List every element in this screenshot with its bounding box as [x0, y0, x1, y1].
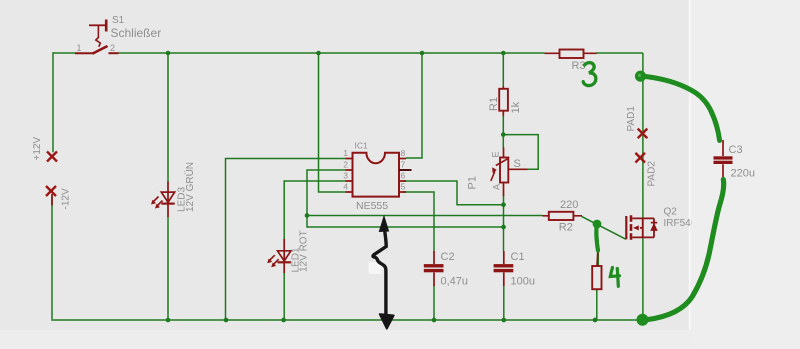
- resistor R4 (unlabeled): [592, 248, 601, 289]
- svg-text:0,47u: 0,47u: [441, 276, 469, 288]
- IC1 pin 7 stub unconnected: [399, 169, 412, 171]
- potentiometer P1: [491, 148, 528, 197]
- IC1 pin stubs left: [346, 159, 353, 193]
- resistor R2: [543, 212, 583, 220]
- wire gate junction down to R4: [597, 224, 599, 266]
- svg-text:12V ROT: 12V ROT: [299, 230, 310, 272]
- wire top rail to IC pin4: [319, 53, 346, 192]
- svg-text:P1: P1: [467, 176, 479, 189]
- wire C1 bottom to rail: [503, 286, 505, 321]
- svg-text:PAD1: PAD1: [626, 106, 637, 132]
- LED LED1 emission arrows: [267, 255, 279, 267]
- svg-text:1: 1: [77, 43, 82, 53]
- svg-text:NE555: NE555: [356, 200, 388, 212]
- svg-text:R2: R2: [559, 221, 573, 233]
- potentiometer P1 wiper arrowhead: [492, 167, 497, 173]
- wire R4 bottom to rail: [596, 290, 598, 321]
- wire top rail right segment after R3: [596, 52, 643, 54]
- svg-text:1: 1: [343, 148, 348, 158]
- wire top rail main segment: [118, 52, 545, 54]
- svg-text:2: 2: [110, 43, 115, 53]
- svg-text:C1: C1: [511, 251, 525, 263]
- wire IC pin3 to LED1 column: [284, 181, 345, 240]
- svg-text:Q2: Q2: [664, 207, 678, 218]
- svg-text:Schließer: Schließer: [111, 26, 162, 40]
- hand-drawn blob at gate junction: [593, 220, 602, 229]
- svg-text:-12V: -12V: [61, 188, 72, 209]
- svg-text:8: 8: [401, 148, 406, 158]
- wire LED1 bottom to rail: [283, 273, 285, 321]
- right lighter margin strip: [691, 0, 800, 349]
- capacitor C2: [433, 251, 435, 286]
- op IC1 NE555 body: [353, 153, 400, 197]
- svg-text:PAD2: PAD2: [647, 161, 658, 187]
- wire pot A to junction and C1 column: [503, 195, 505, 252]
- wire left rail upper (to +12V): [52, 52, 54, 152]
- hand-drawn thick green curve bottom (C3 to bottom rail): [648, 180, 724, 320]
- LED LED1: [278, 239, 291, 273]
- hand-drawn thick green curve top (right rail to C3): [646, 77, 720, 141]
- bottom lighter strip: [0, 330, 691, 349]
- wire top rail to IC pin8: [406, 53, 422, 158]
- supply -12V lead: [51, 194, 53, 206]
- svg-text:C2: C2: [441, 251, 455, 263]
- supply +12V pin X: [47, 152, 57, 162]
- wire LED3 column: [167, 53, 169, 320]
- LED LED3: [161, 182, 174, 218]
- wire left rail lower (from -12V to bottom rail): [51, 196, 53, 319]
- wire IC pin6 to pot wiper net: [403, 181, 504, 205]
- pad PAD1 pin X: [638, 129, 648, 139]
- svg-text:5: 5: [401, 182, 406, 192]
- Q2 body diode: [651, 223, 657, 231]
- capacitor C3: [722, 140, 724, 179]
- transistor Q2 MOSFET: [626, 215, 654, 240]
- IC1 pin numbers: [343, 148, 405, 192]
- wire IC pin2 column and net: [307, 170, 504, 227]
- hand-drawn stroke below gate junction: [596, 226, 598, 251]
- capacitor C1: [503, 251, 505, 286]
- wire net1 to R2: [307, 215, 543, 217]
- wire top rail left segment: [53, 52, 75, 54]
- svg-text:4: 4: [343, 182, 348, 192]
- wire R2 to MOSFET gate diagonal: [582, 216, 626, 239]
- svg-text:S: S: [514, 158, 521, 170]
- svg-text:E: E: [490, 151, 500, 157]
- svg-text:100u: 100u: [511, 276, 535, 288]
- svg-text:220u: 220u: [731, 168, 755, 180]
- supply -12V pin X: [46, 186, 56, 196]
- wire IC pin1 to ground column: [226, 159, 346, 321]
- resistor R1: [499, 87, 508, 117]
- svg-text:IC1: IC1: [355, 140, 369, 150]
- svg-text:6: 6: [401, 171, 406, 181]
- svg-text:1k: 1k: [510, 101, 522, 113]
- wire bottom rail: [51, 319, 643, 321]
- svg-text:A: A: [491, 184, 501, 190]
- hand-drawn digit 3: [583, 63, 596, 86]
- svg-text:+12V: +12V: [32, 137, 43, 161]
- svg-text:12V GRÜN: 12V GRÜN: [184, 162, 196, 212]
- svg-text:S1: S1: [112, 15, 125, 26]
- resistor R3: [545, 50, 597, 59]
- svg-text:C3: C3: [729, 144, 743, 156]
- hand-drawn blob on right rail top: [635, 71, 646, 82]
- Q2 substrate arrow: [633, 225, 639, 230]
- hand-drawn black double arrow: [373, 218, 394, 329]
- svg-text:7: 7: [401, 160, 406, 170]
- wire R1 bottom to junction: [502, 115, 504, 149]
- svg-text:2: 2: [343, 160, 348, 170]
- svg-text:220: 220: [560, 199, 578, 211]
- wire junction loop to pot S pin: [503, 135, 538, 170]
- IC1 pin stubs right: [399, 159, 406, 193]
- wire right rail (drain/source column): [642, 53, 644, 320]
- hand-drawn digit 4: [610, 268, 619, 287]
- wire IC pin5 to C2: [403, 192, 434, 252]
- svg-text:3: 3: [343, 171, 348, 181]
- pad PAD2 pin X: [635, 153, 645, 163]
- svg-text:R1: R1: [488, 97, 500, 111]
- white correction patch: [369, 262, 382, 274]
- wire C2 bottom to rail: [433, 286, 435, 321]
- LED LED3 emission arrows: [151, 197, 163, 209]
- wire R1 top feed: [502, 53, 504, 88]
- switch S1: [75, 20, 119, 54]
- hand-drawn blob at bottom rail: [637, 314, 649, 326]
